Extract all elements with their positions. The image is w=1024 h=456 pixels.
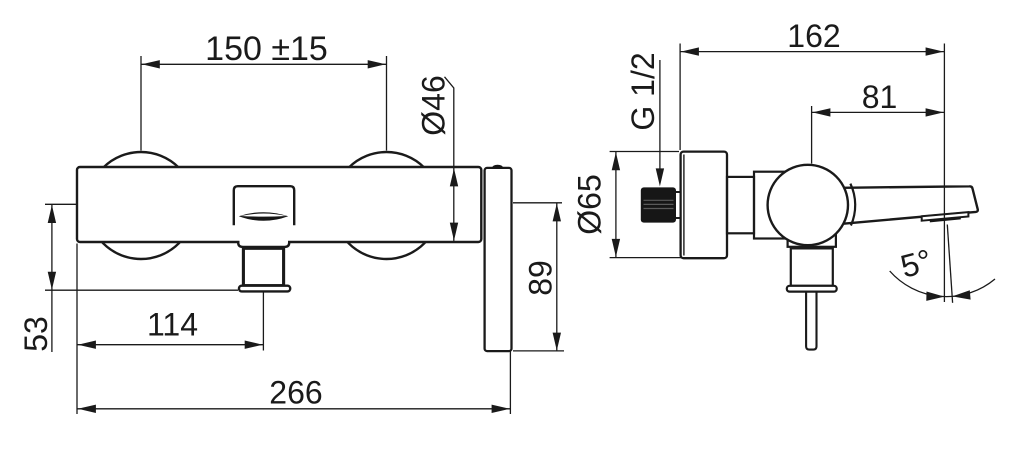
svg-text:162: 162	[787, 18, 840, 54]
svg-text:81: 81	[862, 79, 898, 115]
svg-text:Ø65: Ø65	[572, 174, 608, 234]
svg-text:G 1/2: G 1/2	[625, 52, 661, 130]
svg-text:53: 53	[18, 316, 54, 352]
svg-text:150 ±15: 150 ±15	[205, 30, 328, 68]
svg-text:89: 89	[523, 260, 559, 296]
svg-text:114: 114	[147, 307, 198, 343]
svg-text:266: 266	[269, 375, 322, 411]
svg-text:Ø46: Ø46	[416, 75, 452, 135]
